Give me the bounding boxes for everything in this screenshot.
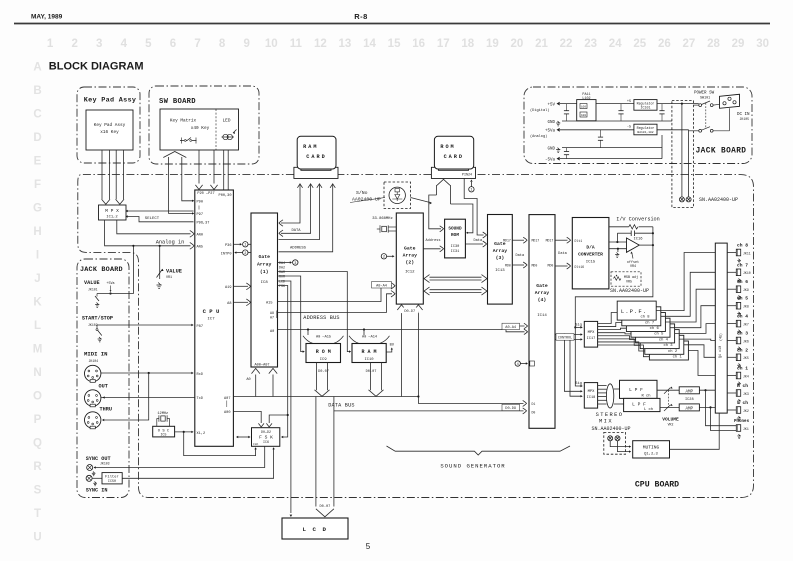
svg-text:MSB adj: MSB adj [624, 275, 638, 280]
svg-text:Sig: Sig [575, 381, 582, 386]
svg-text:L102: L102 [582, 97, 590, 101]
svg-text:MPX: MPX [588, 390, 596, 394]
wire ROM conn to GA3 [464, 178, 483, 235]
svg-text:INTP0: INTP0 [221, 252, 232, 256]
lcd display LCD [282, 518, 348, 539]
svg-text:ch 6: ch 6 [650, 326, 660, 331]
svg-text:AN0: AN0 [197, 234, 203, 238]
muting pin 1 [608, 436, 613, 441]
wire START/STOP to CPU P87 [97, 324, 192, 326]
wire GND2 line [562, 147, 662, 149]
svg-text:BA101,102: BA101,102 [637, 131, 653, 134]
svg-text:A00: A00 [224, 411, 230, 415]
svg-text:12: 12 [314, 38, 327, 50]
svg-text:CARD: CARD [306, 154, 326, 160]
node 1 at CPU [243, 242, 248, 247]
svg-text:ch 1: ch 1 [673, 355, 683, 360]
wire to phones cold [711, 407, 737, 430]
power connector dashed box [672, 101, 694, 208]
potentiometer VOLUME VR2 R [664, 388, 671, 394]
svg-text:U: U [33, 532, 41, 544]
capacitors power filter [566, 104, 568, 111]
wire LPF R to AMP1 [657, 389, 679, 391]
svg-text:Data: Data [473, 239, 482, 243]
svg-text:17: 17 [437, 38, 450, 50]
svg-text:D0-07: D0-07 [320, 505, 331, 509]
switch gang dashed [705, 103, 707, 128]
svg-text:L P F: L P F [632, 402, 646, 408]
svg-text:L ch: L ch [737, 400, 748, 406]
grid column numbers 1-30 [47, 38, 769, 50]
gate array GA3 IC13 [488, 215, 513, 305]
output jack JK9 ch 6 [727, 288, 736, 290]
connector ROM card socket [431, 167, 475, 178]
wire CPU A00 to FSK [233, 411, 261, 423]
svg-text:JK2: JK2 [743, 409, 749, 413]
svg-text:JK101: JK101 [88, 288, 98, 292]
amplifier AMP IC28 [679, 387, 699, 394]
wire GA1 FSK pin down [278, 286, 288, 438]
svg-text:A7: A7 [270, 316, 274, 320]
svg-text:1: 1 [47, 38, 54, 50]
svg-text:P87: P87 [197, 325, 203, 329]
wire MPX to CPU P97 [126, 210, 194, 212]
svg-text:30: 30 [756, 38, 769, 50]
svg-text:MPX: MPX [588, 331, 596, 335]
node 1 at ROM card [469, 187, 474, 192]
svg-text:BLOCK DIAGRAM: BLOCK DIAGRAM [49, 60, 144, 72]
wires MPX18 to mix bus [598, 385, 607, 387]
key switch symbol [180, 138, 197, 141]
label D0-D9 at GA4 [502, 404, 520, 410]
wire GA4 to DA data hi [555, 239, 568, 241]
svg-text:P36: P36 [225, 244, 231, 248]
svg-text:2: 2 [71, 38, 77, 50]
svg-text:R A M: R A M [361, 349, 376, 355]
wire MPX to CPU AN0 [117, 220, 191, 234]
svg-text:SOUND: SOUND [448, 227, 462, 232]
node 3 at GA1 [293, 260, 298, 265]
output jack JK4 ch 1 [727, 375, 736, 377]
svg-text:IC1,2: IC1,2 [106, 216, 118, 220]
svg-text:TxD: TxD [197, 397, 203, 401]
svg-text:DATA: DATA [291, 229, 301, 233]
svg-text:ch 8: ch 8 [640, 315, 650, 320]
svg-text:3: 3 [96, 38, 102, 50]
svg-text:JK1: JK1 [743, 427, 749, 431]
bus GA1 to data bus [255, 375, 257, 397]
wire addr A0 GA1 to GA4 [278, 329, 507, 331]
svg-text:VR1: VR1 [166, 276, 172, 280]
svg-text:MIDI IN: MIDI IN [84, 351, 108, 358]
regulator IC101 [634, 100, 657, 111]
svg-text:Q1,2,3: Q1,2,3 [644, 453, 658, 457]
svg-text:14: 14 [363, 38, 376, 50]
svg-text:IC101: IC101 [641, 105, 651, 109]
svg-text:AMP: AMP [686, 390, 694, 394]
filter LPF L ch [624, 398, 660, 411]
wire pin2 to MUTING [618, 441, 630, 452]
regulator BA101,102 [634, 124, 657, 135]
svg-text:IC8: IC8 [261, 281, 269, 285]
svg-text:MUTING: MUTING [643, 445, 660, 451]
bus data bus to LCD [315, 397, 317, 507]
wire RAM conn to GA1 data b [308, 184, 313, 188]
svg-text:D0-D7: D0-D7 [404, 310, 415, 314]
wire node 2 to GA1 [248, 252, 251, 254]
svg-text:33.868MHz: 33.868MHz [372, 217, 393, 221]
svg-text:Q: Q [33, 438, 42, 450]
svg-text:SOUND GENERATOR: SOUND GENERATOR [440, 463, 505, 470]
svg-text:RAM: RAM [279, 270, 285, 274]
svg-text:L P F: L P F [629, 387, 643, 393]
svg-text:A0-A4: A0-A4 [505, 326, 516, 330]
svg-text:19: 19 [486, 38, 499, 50]
svg-text:Address: Address [425, 238, 440, 243]
wire MIDI OUT to CPU TxD [101, 397, 195, 399]
svg-text:ADDRESS BUS: ADDRESS BUS [303, 315, 339, 321]
svg-text:Regulator: Regulator [637, 126, 655, 130]
svg-text:-5Va: -5Va [545, 158, 556, 162]
svg-text:A0-A4: A0-A4 [376, 284, 387, 288]
svg-text:(3): (3) [496, 255, 505, 261]
svg-text:K: K [33, 297, 42, 309]
svg-text:2: 2 [244, 252, 246, 256]
SYNC IN connector [86, 475, 92, 481]
svg-text:P90: P90 [197, 201, 203, 205]
svg-text:P: P [34, 414, 42, 426]
dc inlet JK105 [720, 94, 740, 108]
switch SW101 pole 2 [699, 129, 702, 132]
svg-text:ch 5: ch 5 [654, 332, 664, 337]
ground VALUE pot [157, 283, 162, 289]
svg-text:100: 100 [581, 106, 586, 109]
wire key matrix col 2 to CPU top [213, 150, 215, 184]
bus ROM to data bus [316, 362, 318, 390]
bus keypad to MPX left [101, 150, 103, 199]
trimmer MSB adj VR5 dashed box [611, 272, 641, 286]
wire control 1 to MPX18 [564, 335, 581, 392]
svg-text:I: I [36, 250, 39, 262]
wire DA to feedback top [609, 226, 629, 228]
svg-text:5: 5 [366, 542, 371, 551]
svg-text:G: G [33, 203, 42, 215]
svg-text:IC15: IC15 [586, 260, 596, 264]
svg-text:JK7: JK7 [743, 322, 749, 326]
svg-text:DA4: DA4 [279, 261, 285, 265]
bus key matrix rows to CPU P90-P97 [163, 152, 186, 158]
svg-text:21: 21 [535, 38, 548, 50]
wire FSK to SYNC OUT [95, 446, 265, 467]
wire opamp output [639, 244, 653, 246]
wire Sig to MPX18 [575, 327, 581, 386]
svg-text:SELECT: SELECT [145, 217, 160, 221]
svg-text:16: 16 [412, 38, 425, 50]
filter LPF stack ch1-ch8 [649, 341, 688, 360]
svg-text:JK4: JK4 [743, 374, 749, 378]
CPU pin bar A07-A00 [226, 401, 228, 408]
DIN connector MIDI OUT [85, 390, 101, 406]
svg-text:M: M [33, 344, 43, 356]
svg-text:ch 6: ch 6 [737, 279, 748, 285]
wire GA1 DA4 to node 3 [278, 262, 291, 264]
svg-text:(4): (4) [538, 297, 547, 303]
svg-text:R ch: R ch [737, 383, 748, 389]
svg-text:I/V Conversion: I/V Conversion [616, 217, 660, 223]
svg-text:28: 28 [707, 38, 720, 50]
label A0-A4 at GA4 [502, 323, 520, 329]
svg-text:MD0: MD0 [532, 263, 538, 267]
svg-text:11: 11 [290, 38, 303, 50]
wire AMP2 to connector [699, 406, 715, 408]
svg-text:Key Matrix: Key Matrix [170, 119, 197, 124]
wire GA4 control 2 [555, 338, 581, 340]
multiplexer MPX IC18 [584, 383, 597, 409]
svg-text:A0: A0 [270, 330, 274, 334]
wire GA1 RAM select [278, 272, 350, 352]
svg-text:-5: -5 [627, 126, 631, 130]
bus GA2 GA3 upper [430, 276, 482, 278]
svg-text:(Analog): (Analog) [530, 134, 547, 139]
CPU pin ellipsis P90-P97 [198, 206, 200, 210]
svg-text:SW BOARD: SW BOARD [159, 98, 196, 106]
svg-text:DA2: DA2 [279, 266, 285, 270]
svg-text:Key Pad Assy: Key Pad Assy [94, 123, 126, 128]
wire addr branch to RAM [363, 328, 365, 330]
svg-text:Data: Data [515, 254, 524, 258]
svg-text:MAY, 1989: MAY, 1989 [31, 14, 63, 21]
emi filter L102 [577, 100, 596, 121]
wire node 2 to CPU INTP0 [235, 252, 243, 254]
svg-text:JACK BOARD: JACK BOARD [80, 266, 123, 274]
svg-text:GND: GND [547, 147, 555, 151]
svg-text:D/A: D/A [586, 244, 595, 250]
svg-text:IC17: IC17 [587, 337, 596, 341]
svg-text:24: 24 [609, 38, 622, 50]
label SOUND GENERATOR brace [387, 446, 571, 455]
svg-text:B: B [33, 85, 41, 97]
svg-text:ROM: ROM [451, 233, 459, 238]
svg-text:10: 10 [265, 38, 278, 50]
LED symbol [223, 134, 228, 139]
svg-text:JK103: JK103 [100, 461, 110, 465]
svg-text:IC12: IC12 [405, 271, 415, 275]
svg-text:R O M: R O M [316, 349, 331, 355]
output jack JK1 Phones [736, 425, 740, 432]
svg-text:P00,30: P00,30 [219, 194, 232, 198]
svg-text:OUT: OUT [99, 384, 108, 390]
svg-text:D0-D9: D0-D9 [505, 407, 516, 411]
wire addr A15 GA1 to GA2 [278, 286, 393, 302]
svg-text:JACK BOARD: JACK BOARD [696, 148, 747, 156]
svg-text:LED: LED [223, 119, 231, 124]
wire cap feedback [617, 232, 631, 234]
svg-text:P20 —P27: P20 —P27 [197, 192, 214, 196]
dac D/A CONVERTER IC15 [572, 218, 609, 289]
svg-text:(1): (1) [260, 269, 269, 275]
svg-text:13: 13 [339, 38, 352, 50]
svg-text:ADDRESS: ADDRESS [290, 246, 307, 250]
gate array GA2 IC12 [396, 213, 423, 304]
svg-text:ROM: ROM [440, 144, 455, 150]
label CONTROL [556, 334, 574, 341]
svg-text:A0 —A15: A0 —A15 [316, 336, 331, 340]
svg-text:BU: BU [390, 343, 394, 347]
svg-text:X1,2: X1,2 [197, 432, 206, 436]
memory ROM IC9 [306, 344, 341, 363]
gate array GA1 IC8 [251, 213, 278, 367]
multiplexer MPX IC1,2 [99, 205, 127, 220]
wire RxD branch to THRU [103, 373, 149, 420]
wire regulator1 out [657, 103, 699, 105]
resistor feedback [629, 225, 638, 229]
svg-text:SW101: SW101 [700, 96, 710, 100]
svg-text:A07: A07 [224, 397, 230, 401]
svg-text:D: D [33, 132, 41, 144]
svg-text:8: 8 [219, 38, 226, 50]
SYNC OUT connector [87, 465, 93, 471]
svg-text:S/No: S/No [356, 190, 368, 196]
op-amp IC16 [627, 238, 640, 252]
svg-text:1: 1 [244, 244, 246, 248]
memory SOUND ROM IC30 IC31 [445, 219, 466, 258]
svg-text:2: 2 [383, 256, 385, 260]
output jack JK5 ch 2 [727, 356, 736, 358]
wire node 2 to GA2 [387, 255, 393, 257]
svg-text:RxD: RxD [197, 373, 203, 377]
memory RAM IC10 [352, 344, 386, 363]
svg-text:Sig: Sig [575, 322, 582, 327]
wire addr branch to ROM [307, 328, 309, 330]
svg-text:ch 3: ch 3 [737, 331, 748, 337]
grid row letters A-U [33, 62, 43, 544]
wire key matrix col 1 to CPU top [198, 150, 200, 184]
bus CPU A8 to GA1 [233, 301, 248, 303]
trimmer MSB adj VR5 [614, 277, 621, 281]
multiplexer MPX IC17 [584, 321, 597, 347]
svg-text:Phones: Phones [734, 419, 750, 424]
switch SW101 pole 1 [699, 104, 702, 107]
DIN connector MIDI THRU [85, 412, 101, 428]
svg-text:Array: Array [493, 248, 508, 254]
svg-text:1: 1 [470, 189, 472, 193]
wire MPX to CPU AN5 [105, 220, 191, 246]
wire RAM conn to GA1 data a [297, 184, 302, 188]
svg-text:N: N [33, 367, 41, 379]
wire MIDI IN to CPU RxD [101, 372, 192, 374]
svg-text:x40 Key: x40 Key [191, 126, 210, 131]
wire IV output to MPX Sig [575, 245, 653, 327]
bus CPU A19 to GA1 [233, 285, 248, 287]
svg-text:CONVERTER: CONVERTER [578, 251, 603, 257]
svg-text:D0—D2: D0—D2 [261, 430, 271, 434]
svg-text:29: 29 [732, 38, 745, 50]
label PIN24 [460, 172, 474, 177]
svg-text:A15: A15 [266, 302, 272, 306]
svg-text:MD0: MD0 [505, 263, 511, 267]
svg-text:9: 9 [243, 38, 249, 50]
svg-text:Analog in: Analog in [156, 239, 185, 245]
svg-text:JK102: JK102 [88, 323, 98, 327]
svg-text:VR2: VR2 [668, 423, 674, 427]
potentiometer VOLUME VR2 L [664, 405, 671, 411]
wire node 4 to GA4 CS [520, 363, 526, 365]
svg-text:x16 Key: x16 Key [100, 130, 119, 135]
key matrix box [160, 109, 239, 150]
wire pin1 to MUTING [610, 441, 629, 447]
svg-text:27: 27 [683, 38, 696, 50]
svg-text:100: 100 [581, 114, 586, 117]
svg-text:RAM: RAM [303, 144, 318, 150]
svg-text:Gate: Gate [536, 283, 548, 289]
capacitor feedback [630, 231, 632, 237]
svg-text:(Digital): (Digital) [530, 108, 549, 113]
svg-text:ch 3: ch 3 [663, 343, 673, 348]
wire data bus to GA4 hi [418, 397, 523, 404]
output jack JK8 ch 5 [727, 305, 736, 307]
output jack JK6 ch 3 [727, 340, 736, 342]
svg-text:J: J [34, 273, 40, 285]
wire AMP1 to connector [699, 389, 715, 391]
bus CPU to FSK [237, 436, 250, 438]
bus keypad to MPX right [115, 150, 117, 199]
svg-text:THRU: THRU [100, 407, 112, 413]
svg-text:ch 5: ch 5 [737, 296, 748, 302]
wire ROM conn to SOUND ROM addr [429, 195, 441, 229]
svg-text:S: S [34, 485, 42, 497]
wire ROM conn to SOUND ROM data [451, 204, 473, 233]
bus ROM conn down [437, 179, 450, 185]
svg-text:R: R [33, 461, 42, 473]
bus GA2 to data bus [401, 312, 403, 397]
svg-text:O: O [33, 391, 42, 403]
wire CPU P36 to node 1 [233, 243, 240, 245]
svg-text:SYNC IN: SYNC IN [86, 488, 108, 494]
potentiometer VALUE VR1 [159, 246, 161, 279]
svg-text:4: 4 [517, 363, 519, 367]
svg-text:JK3: JK3 [743, 392, 749, 396]
svg-text:ch 4: ch 4 [737, 314, 748, 320]
output jack JK11 ch 8 [727, 252, 736, 254]
node 2 at CPU [243, 250, 248, 255]
wire -5Va line [560, 158, 662, 160]
wire +5Va line [560, 129, 634, 131]
svg-text:CPU BOARD: CPU BOARD [635, 481, 679, 490]
svg-text:+5Va: +5Va [545, 130, 556, 134]
svg-text:18: 18 [461, 38, 474, 50]
svg-text:(4Ω): (4Ω) [718, 333, 722, 341]
svg-text:P97: P97 [197, 213, 203, 217]
header rule [14, 23, 770, 25]
wire GA3 to GA4 data hi [512, 239, 524, 241]
svg-text:Array: Array [535, 290, 550, 296]
svg-text:ch 1: ch 1 [737, 366, 748, 372]
wire power feed 2 [688, 130, 690, 197]
key pad inner box [86, 110, 133, 150]
svg-text:Array: Array [257, 262, 272, 268]
wire GA3 to GA4 data lo [512, 264, 524, 266]
svg-text:CLK: CLK [253, 443, 258, 446]
key matrix divider [215, 109, 217, 150]
muting pins dashed box [604, 432, 626, 454]
svg-text:C P U: C P U [203, 308, 220, 315]
svg-text:A0: A0 [246, 378, 250, 382]
mix bus ellipse [606, 384, 613, 408]
svg-text:6: 6 [170, 38, 176, 50]
svg-text:IC13: IC13 [495, 269, 505, 273]
svg-text:JK104: JK104 [89, 359, 99, 363]
amplifier AMP L [679, 404, 699, 411]
